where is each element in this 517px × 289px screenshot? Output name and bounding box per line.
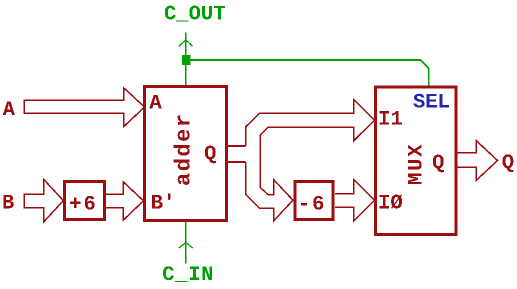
wide arrow +6 to adder [106,182,144,221]
pin label Q of adder [205,146,216,164]
wire C_IN vertical [185,222,187,264]
pin label I0 of MUX [380,194,403,208]
label -6 [301,196,323,210]
C_IN arrowhead [179,243,193,248]
wire stub Q lower [227,161,246,163]
wire C_OUT vertical [185,32,187,85]
net label SEL [413,94,448,108]
label B input [3,195,14,209]
label +6 [70,196,95,210]
branching wide arrow Q to I1 and to -6 [246,100,375,221]
MUX box U2 [376,87,457,235]
-6 box [295,182,333,220]
label MUX rotated [408,145,422,185]
wire C_OUT to SEL horizontal [186,60,429,86]
pin label B' of adder [152,194,170,209]
label Q output [503,154,514,172]
wide input arrow A [24,88,145,127]
pin label Q of MUX [433,155,444,173]
wide output arrow Q [456,141,498,181]
label adder rotated [174,116,190,185]
wide arrow -6 to I0 [335,180,375,221]
net label C_OUT [165,6,225,22]
pin label I1 of MUX [380,111,402,125]
wide input arrow B [24,180,63,222]
wire stub Q upper [227,145,246,147]
label A input [3,102,15,116]
C_OUT arrowhead [179,40,193,46]
+6 box [65,182,105,220]
adder box U1 [145,87,227,221]
pin label A of adder [149,95,161,109]
net label C_IN [163,266,212,282]
junction node dot [182,55,191,65]
